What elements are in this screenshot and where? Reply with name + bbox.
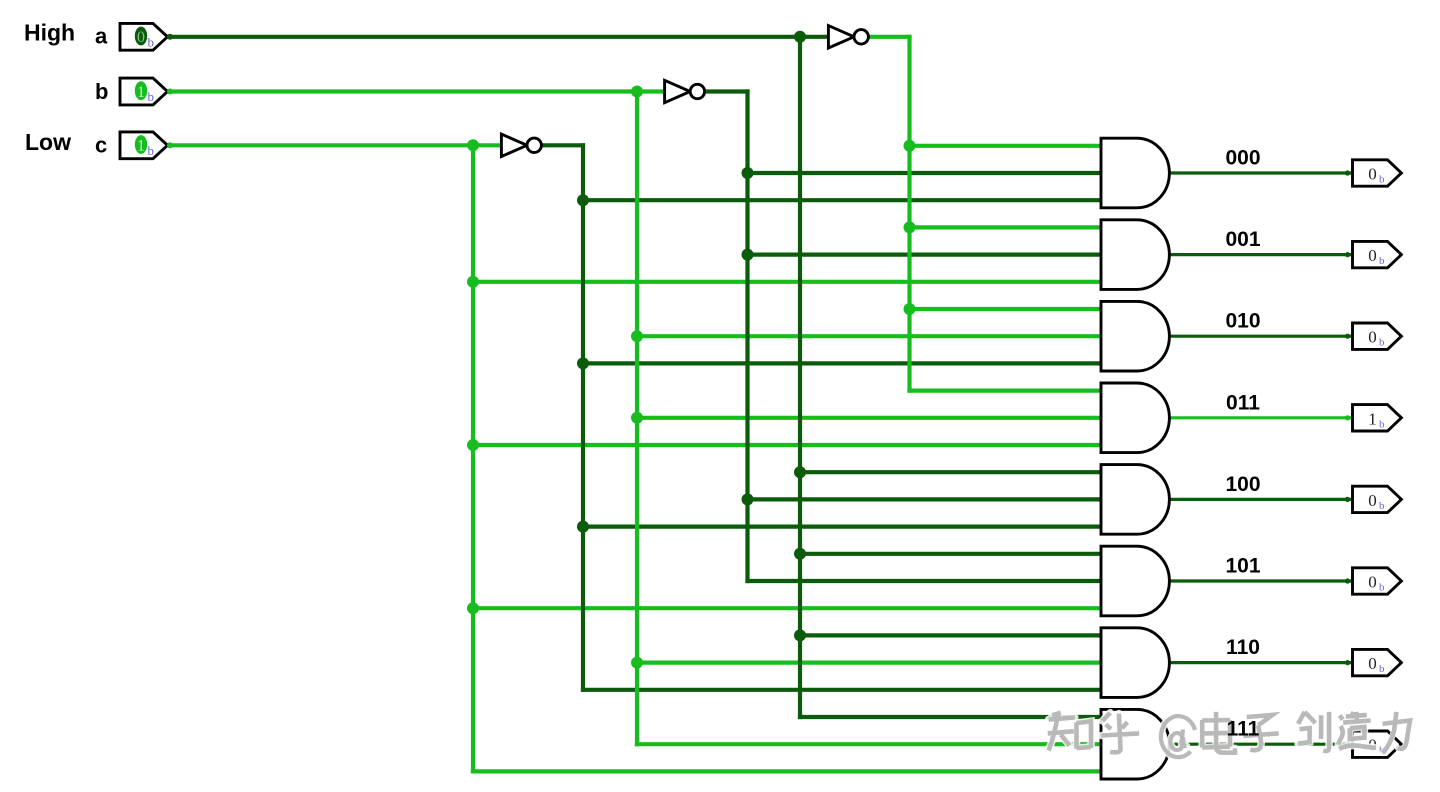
wire gate 100 input 2: [745, 497, 1103, 501]
wire gate 111 input 1: [798, 715, 1103, 719]
AND gate 101: [1101, 546, 1169, 616]
node c to gate 011: [467, 439, 479, 451]
wire net NOT-b vertical: [745, 89, 749, 583]
node c to gate 001: [467, 276, 479, 288]
node b branch at input row: [631, 86, 643, 98]
wire gate 010 input 2: [635, 334, 1103, 338]
output pin 001 (value 0): [1345, 252, 1350, 257]
inverter U1 (NOT a): [828, 26, 854, 48]
wire gate 100 input 3: [581, 524, 1103, 528]
output pin 111 (value 0): [1345, 742, 1350, 747]
wire net a vertical: [798, 35, 802, 719]
svg-text:c: c: [95, 133, 107, 158]
watermark zhihu @dianzi-chuangzaoli: [1048, 713, 1091, 751]
svg-text:b: b: [1379, 255, 1385, 267]
output pin 101 (value 0): [1345, 578, 1350, 583]
svg-text:0: 0: [1368, 573, 1377, 592]
output pin 000 (value 0): [1345, 170, 1350, 175]
wire gate 000 input 1: [907, 144, 1103, 148]
wire gate 101 input 2: [745, 579, 1103, 583]
svg-text:0: 0: [1368, 328, 1377, 347]
wire NOT c output (bubble to corner): [543, 143, 586, 147]
wire gate 001 input 3: [471, 280, 1103, 284]
wire gate 101 input 1: [798, 552, 1103, 556]
AND gate 110: [1101, 628, 1169, 698]
wire gate 000 input 2: [745, 171, 1103, 175]
wire gate 001 input 1: [907, 225, 1103, 229]
input pin c (value 1): [120, 132, 168, 159]
wire gate 110 input 2: [635, 660, 1103, 664]
node b to gate 110: [631, 657, 643, 669]
wire net NOT-c vertical: [581, 143, 585, 692]
node NOT-c to gate 010: [577, 357, 589, 369]
node c branch at input row: [467, 139, 479, 151]
output pin 110 (value 0): [1345, 660, 1350, 665]
svg-text:b: b: [1379, 500, 1385, 512]
svg-text:000: 000: [1225, 147, 1260, 170]
svg-text:b: b: [148, 89, 155, 104]
svg-text:0: 0: [137, 29, 145, 46]
wire gate 001 input 2: [745, 253, 1103, 257]
AND gate 111: [1101, 709, 1169, 779]
AND gate 001: [1101, 220, 1169, 290]
svg-text:0: 0: [1368, 654, 1377, 673]
svg-text:0: 0: [1368, 165, 1377, 184]
wire gate 011 input 1: [907, 389, 1103, 393]
AND gate 100: [1101, 465, 1169, 535]
svg-text:111: 111: [1227, 718, 1260, 741]
node c to gate 101: [467, 602, 479, 614]
wire gate 011 input 3: [471, 443, 1103, 447]
svg-text:b: b: [1379, 663, 1385, 675]
wire gate 110 input 1: [798, 633, 1103, 637]
wire gate 110 output: [1167, 661, 1352, 664]
svg-text:b: b: [1379, 174, 1385, 186]
svg-text:0: 0: [1368, 491, 1377, 510]
wire NOT b output (bubble to corner): [704, 89, 749, 93]
inverter U2 (NOT b): [665, 80, 691, 102]
svg-text:b: b: [148, 34, 155, 49]
inverter U3 (NOT c): [501, 134, 527, 156]
wire gate 111 input 2: [635, 742, 1103, 746]
output pin 010 (value 0): [1345, 334, 1350, 339]
node NOT-a to gate 001: [904, 221, 916, 233]
wire gate 100 output: [1167, 498, 1352, 501]
wire gate 010 input 1: [907, 307, 1103, 311]
node NOT-b to gate 000: [742, 167, 754, 179]
wire gate 110 input 3: [581, 688, 1103, 692]
svg-text:b: b: [95, 79, 108, 104]
node NOT-c to gate 100: [577, 521, 589, 533]
svg-text:110: 110: [1226, 636, 1260, 659]
svg-text:1: 1: [137, 138, 145, 155]
node a to gate 100: [794, 466, 806, 478]
AND gate 011: [1101, 383, 1169, 453]
wire net c vertical: [471, 143, 475, 773]
wire gate 011 output: [1167, 416, 1352, 419]
input pin b (value 1): [120, 78, 168, 105]
svg-text:b: b: [148, 143, 155, 158]
wire gate 011 input 2: [635, 416, 1103, 420]
wire gate 001 output: [1167, 253, 1352, 256]
output pin 100 (value 0): [1345, 497, 1350, 502]
svg-text:011: 011: [1226, 391, 1260, 414]
wire gate 010 output: [1167, 335, 1352, 338]
node NOT-b to gate 001: [742, 249, 754, 261]
AND gate 010: [1101, 301, 1169, 371]
svg-text:001: 001: [1225, 228, 1260, 251]
wire gate 111 output: [1167, 743, 1352, 746]
node NOT-c to gate 000: [577, 194, 589, 206]
node NOT-b to gate 100: [742, 493, 754, 505]
node b to gate 010: [631, 330, 643, 342]
wire a (pin a to NOT a input): [166, 35, 828, 39]
wire gate 111 input 3: [471, 769, 1103, 773]
svg-text:1: 1: [1368, 409, 1377, 428]
svg-text:1: 1: [137, 84, 145, 101]
svg-text:b: b: [1379, 337, 1385, 349]
svg-text:b: b: [1379, 582, 1385, 594]
wire c (pin c to NOT c input): [166, 143, 501, 147]
wire gate 101 input 3: [471, 606, 1103, 610]
svg-text:100: 100: [1225, 473, 1260, 496]
AND gate 000: [1101, 138, 1169, 208]
svg-text:010: 010: [1225, 310, 1260, 333]
svg-text:High: High: [24, 20, 75, 46]
svg-text:a: a: [95, 24, 108, 49]
wire b (pin b to NOT b input): [166, 89, 665, 93]
svg-text:101: 101: [1225, 555, 1260, 578]
node NOT-a to gate 010: [904, 303, 916, 315]
wire net NOT-a vertical: [907, 35, 911, 393]
wire gate 000 input 3: [581, 198, 1103, 202]
wire net b vertical: [635, 89, 639, 746]
node a branch at input row: [794, 31, 806, 43]
input pin a (value 0): [120, 23, 168, 50]
svg-text:Low: Low: [25, 129, 71, 155]
wire gate 010 input 3: [581, 361, 1103, 365]
wire gate 100 input 1: [798, 470, 1103, 474]
svg-text:0: 0: [1368, 246, 1377, 265]
svg-text:b: b: [1379, 418, 1385, 430]
wire gate 000 output: [1167, 171, 1352, 174]
wire NOT a output (bubble to corner): [869, 35, 912, 39]
node NOT-a to gate 000: [904, 140, 916, 152]
node b to gate 011: [631, 412, 643, 424]
node a to gate 110: [794, 629, 806, 641]
wire gate 101 output: [1167, 579, 1352, 582]
node a to gate 101: [794, 548, 806, 560]
output pin 011 (value 1): [1345, 415, 1350, 420]
